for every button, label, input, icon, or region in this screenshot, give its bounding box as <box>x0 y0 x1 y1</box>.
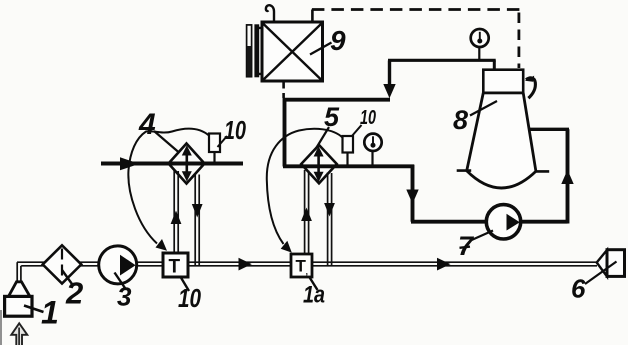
svg-text:2: 2 <box>65 276 83 311</box>
wire: gauge A stem <box>478 46 480 61</box>
leader from 10b label <box>352 125 362 137</box>
flow arrow up on pump loop right riser <box>561 170 573 184</box>
fan unit U9 wall mount black bar <box>254 24 259 77</box>
flask 8 neck curl <box>526 78 535 98</box>
curved leader from vessel 10a around to T-box 1 <box>128 129 209 244</box>
flow arrow up on exchanger 4 left pipe <box>171 211 182 225</box>
svg-text:10: 10 <box>224 115 246 145</box>
fan unit U9 hook <box>266 5 274 22</box>
curved leader from vessel 10b around to T-box 2 <box>267 129 343 244</box>
svg-text:T: T <box>169 257 181 278</box>
arrowhead of curved leader at T-box 2 <box>281 241 292 253</box>
flask 8 bottom whiskers <box>457 169 550 172</box>
wire: drop to flask neck <box>493 60 496 71</box>
expansion vessel 10a <box>209 134 220 153</box>
svg-text:10: 10 <box>178 283 201 313</box>
svg-text:3: 3 <box>117 282 132 312</box>
nozzle 6 cone <box>597 250 607 277</box>
pump P7 rotor triangle <box>507 214 520 231</box>
flow arrow down above circuit top horizontal <box>383 84 395 98</box>
fan unit U9 cross diagonals <box>263 24 322 81</box>
gauge B (thermometer) <box>364 134 381 151</box>
wire: exchanger 5 right vertical pipe <box>328 173 332 266</box>
filter F2 diamond <box>43 245 82 283</box>
heat exchanger 4 diamond <box>169 144 205 184</box>
leader from 3 label <box>115 273 127 290</box>
wire: dashed control line horizontal top <box>312 8 520 11</box>
flow arrow down on circuit vertical x412 <box>406 190 418 204</box>
wire: drop segment with arrow from flask line <box>388 61 391 86</box>
wire: dashed control line right vertical to flask <box>518 13 521 69</box>
leader from 6 label <box>585 262 617 285</box>
gauge A (thermometer) <box>471 29 489 47</box>
wire: main supply pipe (double line) from tank to nozzle <box>17 262 597 266</box>
arrowhead of curved leader at T-box 1 <box>156 239 168 251</box>
svg-text:4: 4 <box>138 108 156 141</box>
tank 1 roof <box>9 282 30 297</box>
pump P7 circle <box>486 205 520 239</box>
leader from 4 to diamond <box>154 131 179 153</box>
leader from 9 label <box>310 43 332 55</box>
svg-text:,: , <box>306 267 309 277</box>
wire: heating circuit vertical down to pump loop <box>411 165 415 222</box>
wire: dashed segment below box 9 <box>282 82 285 98</box>
wire: circuit top horizontal under box 9 <box>283 98 390 102</box>
wire: exchanger 4 left vertical pipe <box>174 171 178 259</box>
flow arrow on main pipe (left) <box>239 258 252 271</box>
thermostat T-box 2 <box>291 254 312 277</box>
leader from 2 label <box>62 270 72 284</box>
flask 8 body <box>467 93 536 188</box>
flow arrow up on exchanger 5 left pipe <box>301 208 312 222</box>
svg-text:8: 8 <box>453 105 468 135</box>
fan unit U9 box <box>262 22 323 81</box>
wire: heating circuit horizontal through exchanger 5 <box>283 164 414 168</box>
wire: dashed control line down to box 9 <box>311 10 314 23</box>
heat exchanger 5 inner double arrow <box>317 152 320 176</box>
expansion vessel 10b <box>343 136 354 153</box>
nozzle 6 box <box>607 250 625 277</box>
scan edge artifact bottom-left <box>0 310 2 345</box>
heat exchanger 4 inner double arrow <box>186 151 189 176</box>
wire: pump loop bottom horizontal <box>411 220 568 224</box>
tank 1 inlet outline arrow <box>11 323 27 345</box>
wire: vessel 10b stem <box>346 151 348 167</box>
flow arrow down on exchanger 4 right pipe <box>192 204 203 218</box>
flask 8 neck <box>483 70 523 93</box>
tank 1 body <box>5 296 32 316</box>
pump P3 circle <box>99 246 137 284</box>
svg-text:5: 5 <box>324 102 340 132</box>
wire: flask top horizontal line <box>388 59 496 62</box>
leader from 1 label <box>24 306 44 313</box>
svg-text:9: 9 <box>330 25 346 56</box>
wire: exchanger 4 right vertical pipe <box>195 174 199 266</box>
leader from 5 to diamond <box>315 127 329 150</box>
wire: tank riser pipe (double line) <box>17 262 21 285</box>
wire: gauge B stem <box>371 151 373 167</box>
wire: pump loop right vertical riser <box>566 129 570 223</box>
wire: vessel 10a stem <box>213 151 215 164</box>
wire: pump loop top into flask 8 <box>528 128 569 131</box>
leader from 7 label <box>471 231 494 241</box>
pump P3 rotor triangle <box>120 255 136 276</box>
wire: exchanger 5 left vertical pipe <box>305 170 309 258</box>
svg-text:1: 1 <box>41 295 59 331</box>
leader from T-box 2 to 1a label <box>309 277 318 291</box>
leader from T-box 1 to 10 label <box>180 276 189 291</box>
heat exchanger 5 diamond <box>301 145 337 183</box>
thermostat T-box 1 <box>163 253 188 277</box>
leader from 8 label <box>470 101 497 116</box>
flow arrow on main pipe (right) <box>437 258 451 271</box>
flow arrow on duct 4 <box>120 157 139 170</box>
svg-text:1a: 1a <box>303 282 325 309</box>
wire: heating circuit left vertical (box 9 down) <box>283 98 287 167</box>
fan unit U9 wall mount thin line <box>247 25 252 77</box>
flow arrow down on exchanger 5 right pipe <box>324 203 335 217</box>
svg-text:10: 10 <box>360 107 376 129</box>
filter F2 dashed element <box>61 249 63 281</box>
svg-text:6: 6 <box>571 274 586 304</box>
wire: air duct through exchanger 4 (thick) <box>101 162 243 166</box>
leader from 10a label <box>218 136 228 147</box>
fan unit U9 mount nubs <box>259 28 263 74</box>
